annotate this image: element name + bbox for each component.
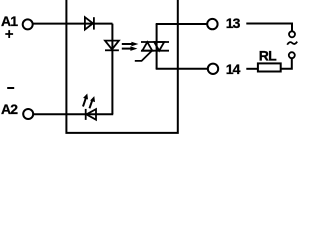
LED2 arrow left <box>83 94 88 107</box>
svg-text:14: 14 <box>226 61 241 77</box>
module box outline (top edge clipped) <box>66 0 177 133</box>
minus sign <box>7 87 14 89</box>
svg-text:13: 13 <box>226 15 241 31</box>
wire A1 to diode corner <box>33 23 113 25</box>
svg-text:A2: A2 <box>1 101 18 117</box>
left triangle pointing up <box>142 42 152 51</box>
emission arrow lower <box>122 46 138 51</box>
AC source terminal bottom <box>289 52 295 58</box>
LED1 (optocoupler emitter, pointing down) <box>105 41 119 51</box>
triac U1 <box>135 42 169 61</box>
gate lead <box>135 51 152 61</box>
LED2 (indicator, pointing left) <box>86 109 96 120</box>
wire 13 to AC source <box>246 24 292 31</box>
svg-text:RL: RL <box>259 48 277 64</box>
wire AC bottom to resistor <box>281 59 292 69</box>
wire to terminal 14 <box>156 68 207 70</box>
emission arrow upper <box>122 42 139 47</box>
LED2 arrow right <box>90 96 96 108</box>
triac center vertical wire <box>156 24 158 69</box>
plus sign <box>5 30 13 38</box>
wire vertical through LED1 <box>111 24 113 115</box>
wire to terminal 13 <box>156 23 207 25</box>
terminal A2 <box>23 109 33 119</box>
svg-text:A1: A1 <box>1 13 18 29</box>
bottom bar <box>141 50 169 52</box>
terminal 13 circle <box>207 19 217 29</box>
wire 14 to resistor <box>246 68 258 70</box>
diode D1 (series) <box>85 17 94 29</box>
top bar <box>141 41 169 43</box>
terminal A1 <box>23 19 33 29</box>
AC tilde <box>287 42 297 45</box>
resistor RL box <box>258 63 281 71</box>
AC source terminal top <box>289 31 295 37</box>
terminal 14 circle <box>208 64 218 74</box>
wire A2 to corner <box>34 113 114 115</box>
right triangle pointing down <box>154 42 164 51</box>
